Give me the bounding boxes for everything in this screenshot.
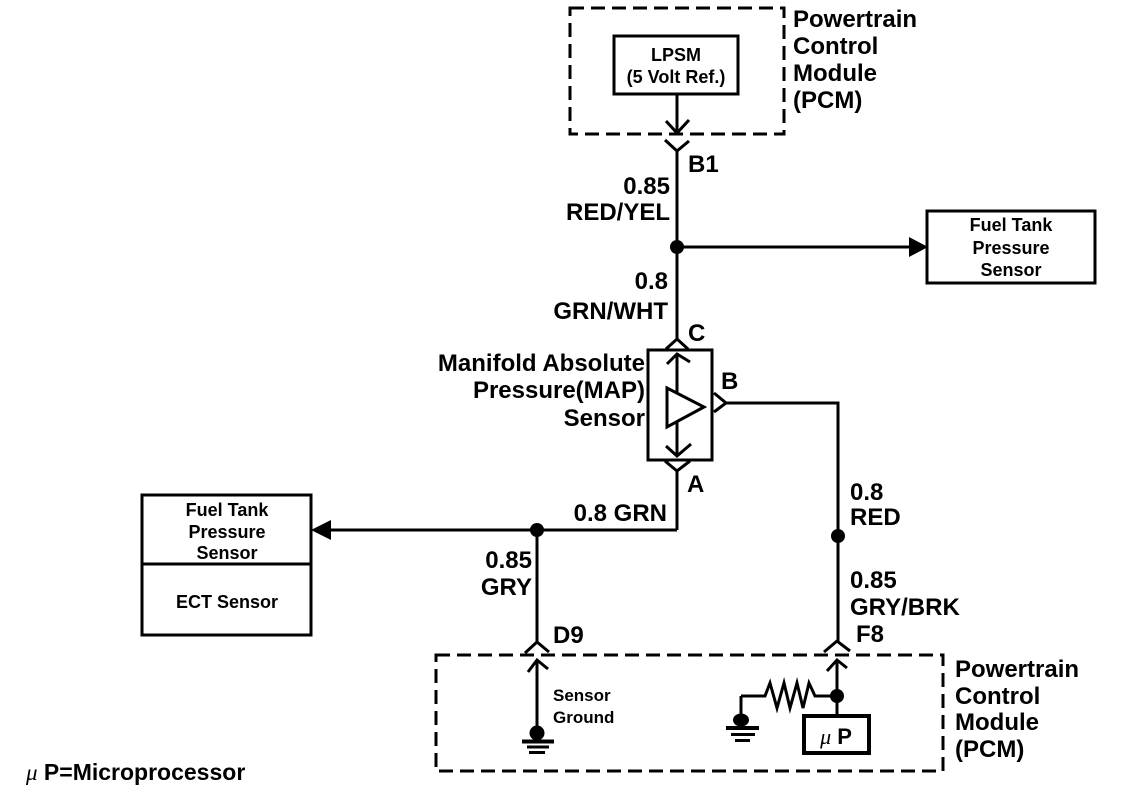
junction node	[670, 240, 684, 254]
wire LPSM output	[676, 94, 679, 133]
pin B chevron	[714, 393, 726, 412]
svg-text:Pressure: Pressure	[972, 238, 1049, 258]
svg-text:ECT Sensor: ECT Sensor	[176, 592, 278, 612]
arrow up at F8 inside PCM	[827, 660, 847, 695]
svg-text:(PCM): (PCM)	[955, 736, 1024, 763]
connector pin B1	[665, 140, 689, 151]
connector pin A chevron	[665, 461, 690, 471]
label Powertrain Control Module (PCM) top right	[793, 6, 917, 114]
wire pin A down	[676, 471, 679, 530]
op-amp triangle inside MAP sensor	[667, 388, 704, 427]
Fuel Tank Pressure Sensor / ECT Sensor box (left)	[142, 495, 311, 635]
svg-text:Module: Module	[793, 60, 877, 87]
arrowhead left	[311, 520, 331, 540]
svg-text:Control: Control	[793, 33, 878, 60]
wire junction to Fuel Tank Pressure Sensor	[677, 246, 914, 249]
MAP sensor box U1	[648, 350, 712, 460]
label 0.85 GRY	[481, 547, 532, 601]
svg-text:Powertrain: Powertrain	[793, 6, 917, 33]
ground symbol left (sensor ground)	[522, 726, 554, 753]
connector pin C chevron	[666, 339, 688, 349]
PCM bottom dashed box	[436, 655, 943, 771]
LPSM (5 Volt Ref.) box	[614, 36, 738, 94]
label 0.8 GRN/WHT	[553, 268, 668, 325]
label 0.85 GRY/BRK	[850, 567, 960, 621]
junction node at microprocessor	[830, 689, 844, 703]
microprocessor box µP	[804, 716, 869, 753]
svg-text:Pressure: Pressure	[188, 522, 265, 542]
svg-text:(5 Volt Ref.): (5 Volt Ref.)	[627, 67, 726, 87]
svg-text:Module: Module	[955, 709, 1039, 736]
svg-text:C: C	[688, 320, 705, 347]
svg-text:GRY/BRK: GRY/BRK	[850, 594, 960, 621]
sensor ground arrow and wire	[528, 660, 548, 728]
svg-text:Fuel Tank: Fuel Tank	[970, 215, 1054, 235]
wire B1 to junction	[676, 151, 679, 248]
svg-text:0.8 GRN: 0.8 GRN	[574, 500, 667, 527]
wire junction to pin C	[676, 247, 679, 339]
svg-text:Manifold Absolute: Manifold Absolute	[438, 350, 645, 377]
wire junction to Fuel Tank/ECT box	[315, 529, 677, 532]
svg-text:0.8: 0.8	[635, 268, 668, 295]
wire resistor to ground	[740, 696, 743, 716]
wire junction to microprocessor	[836, 696, 839, 716]
svg-text:0.85: 0.85	[850, 567, 897, 594]
svg-text:μ P: μ P	[819, 724, 852, 749]
svg-text:D9: D9	[553, 622, 584, 649]
label 0.8 RED	[850, 479, 901, 531]
MAP sensor internal signal line with arrows	[666, 354, 691, 456]
svg-text:(PCM): (PCM)	[793, 87, 862, 114]
svg-text:0.85: 0.85	[485, 547, 532, 574]
svg-text:μ P=Microprocessor: μ P=Microprocessor	[25, 759, 245, 785]
svg-text:B1: B1	[688, 151, 719, 178]
splice node on RED wire	[831, 529, 845, 543]
svg-text:GRY: GRY	[481, 574, 532, 601]
svg-text:Sensor: Sensor	[980, 260, 1041, 280]
arrowhead down at PCM boundary	[666, 120, 689, 133]
label Powertrain Control Module (PCM) bottom right	[955, 656, 1079, 763]
svg-text:Ground: Ground	[553, 708, 614, 727]
svg-text:0.8: 0.8	[850, 479, 883, 506]
svg-text:Control: Control	[955, 683, 1040, 710]
ground symbol (PCM internal)	[726, 714, 759, 741]
svg-text:Sensor: Sensor	[553, 686, 611, 705]
connector pin F8 chevron	[824, 641, 850, 652]
svg-text:F8: F8	[856, 621, 884, 648]
svg-text:0.85: 0.85	[623, 173, 670, 200]
arrowhead right	[909, 237, 928, 257]
junction node left	[530, 523, 544, 537]
svg-text:Pressure(MAP): Pressure(MAP)	[473, 377, 645, 404]
svg-text:RED: RED	[850, 504, 901, 531]
svg-text:Fuel Tank: Fuel Tank	[186, 500, 270, 520]
label 0.85 RED/YEL	[566, 173, 670, 226]
PCM top dashed box	[570, 8, 784, 134]
wire pin B to F8	[726, 403, 838, 641]
svg-text:LPSM: LPSM	[651, 45, 701, 65]
svg-text:Powertrain: Powertrain	[955, 656, 1079, 683]
label Sensor Ground	[553, 686, 614, 727]
label Manifold Absolute Pressure(MAP) Sensor	[438, 350, 645, 432]
svg-text:RED/YEL: RED/YEL	[566, 199, 670, 226]
Fuel Tank Pressure Sensor box (top right)	[927, 211, 1095, 283]
svg-text:GRN/WHT: GRN/WHT	[553, 298, 668, 325]
wire junction to D9	[536, 530, 539, 642]
svg-text:Sensor: Sensor	[196, 543, 257, 563]
resistor R1	[741, 683, 831, 708]
svg-text:Sensor: Sensor	[564, 405, 645, 432]
svg-text:A: A	[687, 471, 704, 498]
svg-text:B: B	[721, 368, 738, 395]
connector pin D9 chevron	[525, 642, 549, 653]
